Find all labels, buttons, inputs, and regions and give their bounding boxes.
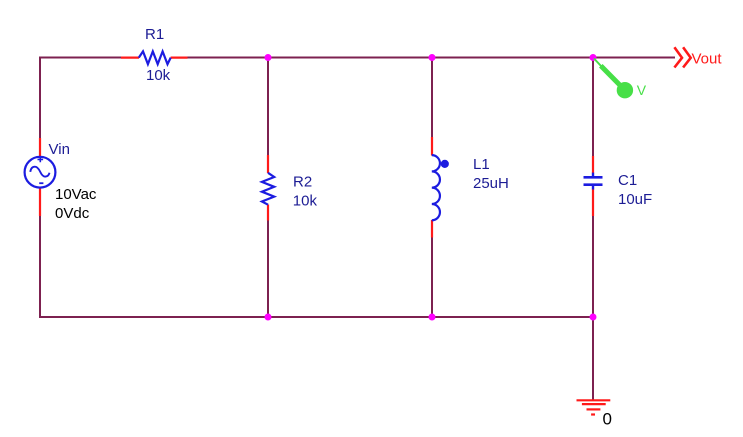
resistor R2 (262, 155, 274, 221)
junction top R2 (265, 54, 272, 61)
label net Vout (692, 50, 723, 67)
svg-text:R2: R2 (293, 173, 312, 190)
voltage probe marker V (594, 59, 633, 99)
junction top C1 / Vout node (590, 54, 597, 61)
svg-text:10k: 10k (146, 67, 171, 84)
svg-text:10k: 10k (293, 192, 318, 209)
wire top rail right segment (188, 57, 676, 59)
wire ground stem (592, 317, 594, 400)
label C1 (618, 172, 637, 189)
wire left vertical upper (39, 57, 41, 139)
svg-text:L1: L1 (473, 156, 490, 173)
junction bottom R2 (265, 314, 272, 321)
svg-text:C1: C1 (618, 172, 637, 189)
label Vin (49, 141, 70, 158)
wire bottom rail (39, 316, 593, 318)
junction bottom C1 (590, 314, 597, 321)
wire C1 branch lower (592, 216, 594, 317)
svg-text:0: 0 (603, 409, 612, 428)
source Vin (25, 138, 56, 216)
resistor R1 (121, 51, 188, 64)
wire R2 branch upper (267, 58, 269, 156)
svg-text:Vout: Vout (692, 50, 723, 67)
label Vin value 0Vdc (55, 205, 90, 222)
wire left vertical lower (39, 216, 41, 318)
svg-text:10Vac: 10Vac (55, 186, 97, 203)
wire L1 branch lower (431, 237, 433, 317)
label probe V (637, 82, 647, 98)
svg-text:R1: R1 (145, 26, 164, 43)
wire R2 branch lower (267, 220, 269, 317)
svg-text:V: V (637, 82, 647, 98)
label ground 0 (603, 409, 612, 428)
wire top rail left segment (40, 57, 121, 59)
label R1 (145, 26, 164, 43)
node Vout marker chevrons (674, 47, 690, 67)
label R2 value 10k (293, 192, 318, 209)
label C1 value 10uF (618, 191, 652, 208)
junction bottom L1 (429, 314, 436, 321)
junction top L1 (429, 54, 436, 61)
capacitor C1 (584, 156, 603, 216)
svg-text:10uF: 10uF (618, 191, 652, 208)
wire C1 branch upper (592, 58, 594, 157)
ground (577, 400, 611, 414)
svg-text:0Vdc: 0Vdc (55, 205, 90, 222)
label R2 (293, 173, 312, 190)
label L1 (473, 156, 490, 173)
label Vin value 10Vac (55, 186, 97, 203)
svg-text:25uH: 25uH (473, 175, 509, 192)
svg-text:Vin: Vin (49, 141, 70, 158)
label R1 value 10k (146, 67, 171, 84)
label L1 value 25uH (473, 175, 509, 192)
wire L1 branch upper (431, 58, 433, 138)
inductor L1 (432, 137, 449, 238)
